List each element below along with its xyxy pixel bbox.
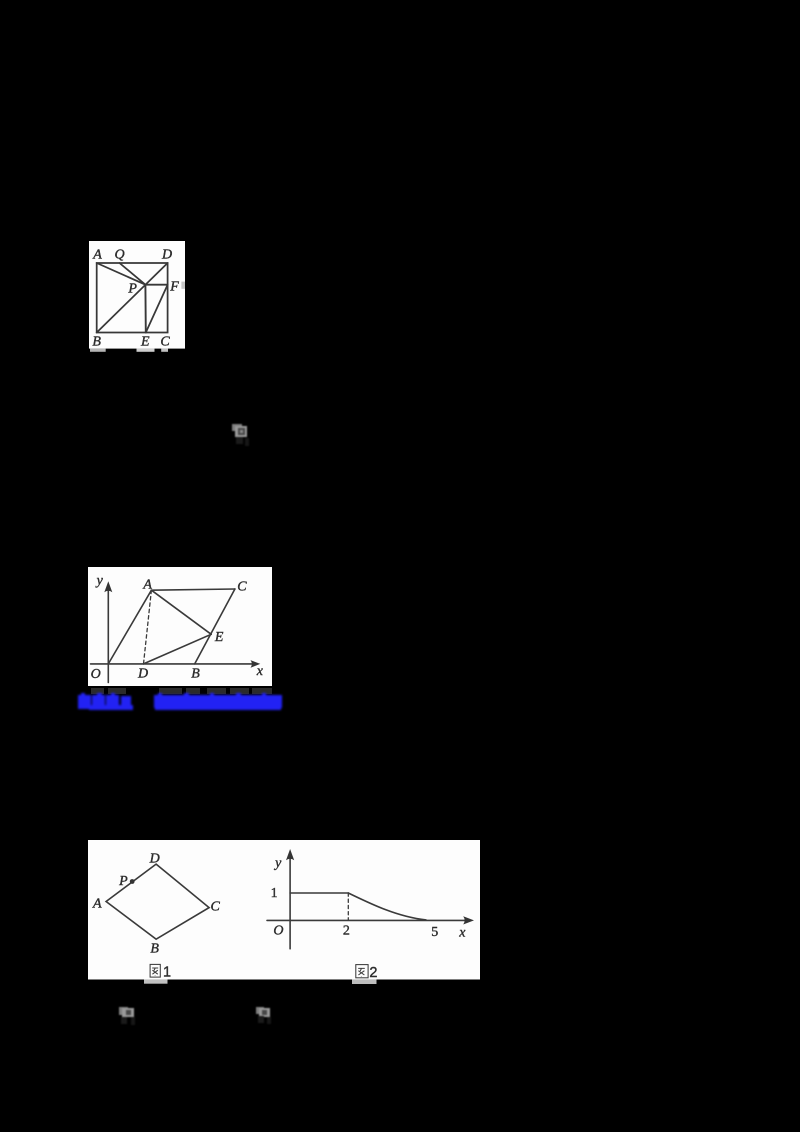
blue heading band (blurred bold blue text remnants): [75, 687, 295, 711]
svg-text:B: B: [150, 941, 159, 956]
white panel: [88, 840, 480, 980]
white panel: [89, 241, 185, 349]
svg-text:1: 1: [271, 886, 278, 901]
figure box 1: square ABCD with P,Q,E,F: [89, 241, 185, 353]
svg-text:D: D: [137, 666, 148, 681]
y axis arrowhead: [286, 849, 294, 860]
x axis: [91, 663, 255, 665]
gray artifact under caption fig1: [144, 979, 168, 983]
blue pseudo-glyph group right: [74, 686, 76, 688]
svg-text:D: D: [149, 851, 160, 866]
svg-text:A: A: [92, 897, 102, 912]
svg-text:B: B: [92, 334, 101, 349]
line AC: [151, 589, 235, 590]
svg-text:x: x: [256, 664, 264, 679]
line AE: [151, 590, 211, 634]
svg-text:5: 5: [431, 925, 438, 940]
figure box 3: rhombus (fig1) and graph (fig2): [88, 840, 480, 986]
tiny gray icon bottom right: [256, 1007, 270, 1018]
svg-text:P: P: [118, 874, 128, 889]
tiny gray icon bottom left: [119, 1007, 135, 1019]
svg-text:y: y: [95, 574, 104, 589]
y axis: [107, 585, 109, 683]
svg-text:C: C: [237, 580, 247, 595]
svg-text:B: B: [191, 666, 200, 681]
line BC through E: [195, 589, 235, 664]
gray artifact under C: [161, 348, 168, 351]
segment PE: [144, 284, 146, 332]
gray artifact under E: [136, 348, 154, 351]
y axis arrowhead: [104, 581, 112, 592]
svg-text:E: E: [214, 630, 224, 645]
diagonal BD through P: [96, 263, 167, 333]
svg-text:F: F: [169, 279, 179, 294]
graph dashed vertical x=2: [347, 893, 349, 920]
x axis arrowhead: [463, 916, 474, 924]
graph level y=1 segment: [290, 892, 348, 894]
caption fig1 glyph tu: [150, 964, 160, 977]
svg-text:O: O: [273, 924, 283, 939]
rhombus ABCD: [106, 864, 209, 939]
square ABCD: [96, 263, 167, 333]
svg-text:A: A: [142, 578, 152, 593]
svg-text:C: C: [160, 334, 170, 349]
svg-text:2: 2: [343, 924, 350, 939]
svg-text:Q: Q: [114, 247, 124, 262]
dark shadow blocks above heading: [91, 688, 104, 694]
segment EF: [145, 284, 167, 332]
gray artifact under B: [90, 348, 106, 351]
svg-text:E: E: [140, 334, 150, 349]
line DE: [144, 634, 212, 664]
segment PF: [145, 283, 167, 285]
line OA: [108, 590, 151, 664]
blue underline right: [155, 705, 281, 710]
graph y axis: [289, 854, 291, 949]
dashed AD: [144, 590, 152, 664]
svg-text:C: C: [211, 899, 221, 914]
blue pseudo-glyph group left: [74, 686, 76, 688]
graph x axis: [267, 919, 469, 921]
svg-text:y: y: [273, 856, 282, 871]
figure box 2: parallelogram OACB on coordinate axes: [88, 567, 272, 686]
white panel: [88, 567, 272, 686]
segment AP: [96, 263, 145, 285]
tiny gray icon mid page: [232, 424, 248, 437]
svg-text:D: D: [161, 247, 172, 262]
segment QP: [119, 263, 145, 285]
blue underline left: [89, 705, 133, 710]
caption fig2 glyph tu: [356, 965, 368, 978]
x axis arrowhead: [251, 660, 261, 668]
svg-text:O: O: [91, 667, 101, 682]
svg-text:x: x: [458, 925, 466, 940]
svg-text:1: 1: [163, 965, 171, 981]
point P on AD: [130, 879, 135, 884]
gray artifact right of F: [181, 281, 185, 288]
svg-text:P: P: [127, 281, 137, 296]
svg-text:A: A: [92, 247, 102, 262]
graph decay curve: [348, 893, 426, 920]
svg-text:2: 2: [369, 965, 377, 981]
gray artifact under caption fig2: [352, 979, 377, 984]
